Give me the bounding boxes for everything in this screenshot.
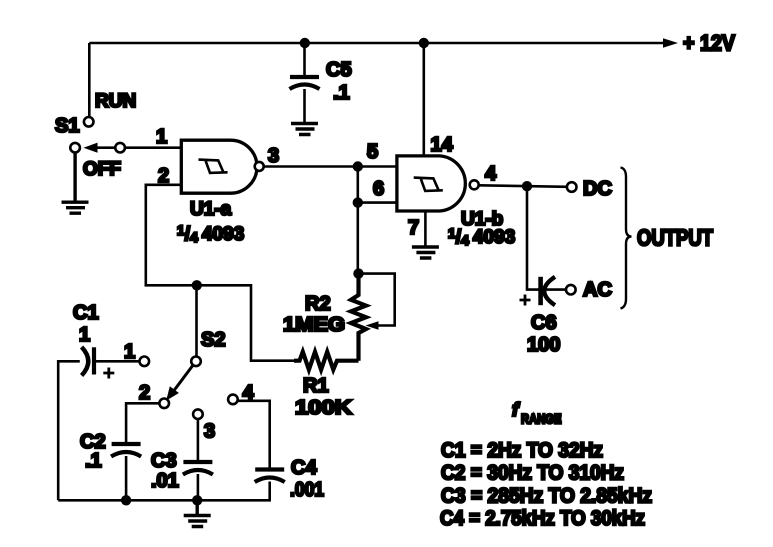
node S2 pole junction [192, 280, 202, 290]
node pin5 junction [353, 161, 363, 171]
wire pin 3 to pins 5/6 [264, 165, 397, 168]
capacitor C6 [538, 277, 543, 305]
resistor R1 body [294, 352, 359, 370]
capacitor C4 [255, 467, 284, 471]
node output junction [522, 181, 532, 191]
output brace [621, 168, 632, 309]
svg-text:C3 = 285Hz TO 2.85kHz: C3 = 285Hz TO 2.85kHz [441, 485, 652, 508]
node rail-C5 junction [300, 38, 310, 48]
switch S2 contact 4 [228, 395, 238, 405]
svg-text:3: 3 [204, 421, 215, 443]
wire pin 4 output [479, 185, 567, 187]
svg-text:1: 1 [156, 126, 167, 148]
svg-text:100: 100 [527, 334, 560, 356]
wire junction down to C6 [527, 186, 539, 289]
capacitor C5 [303, 43, 306, 75]
svg-text:.1: .1 [85, 450, 102, 472]
switch S2 contact 2 [159, 399, 169, 409]
svg-text:OFF: OFF [83, 159, 121, 180]
svg-text:RUN: RUN [95, 91, 136, 112]
svg-text:C4: C4 [291, 457, 317, 479]
switch S2 arm [171, 365, 193, 395]
wire contact 4 to C4 [237, 401, 269, 468]
svg-text:U1-a: U1-a [190, 199, 232, 220]
wire pins 5/6 vertical [356, 167, 359, 274]
wire contact 2 to C2 [126, 403, 160, 442]
wire pin 6 stub [358, 201, 397, 204]
U1-a schmitt trigger symbol [199, 160, 228, 173]
wire S2 pole [195, 285, 198, 356]
svg-text:2: 2 [139, 382, 150, 404]
node C2-rail junction [121, 495, 131, 505]
svg-text:C5: C5 [326, 59, 352, 81]
wire pin 2 feedback path to R1 [146, 185, 294, 361]
switch S2 pole contact [191, 357, 201, 367]
svg-text:1MEG: 1MEG [283, 314, 345, 336]
svg-text:1/44093: 1/44093 [448, 225, 515, 248]
switch S1 pole contact [70, 143, 80, 153]
svg-text:R1: R1 [303, 375, 329, 397]
R2 wiper arrowhead [366, 321, 379, 330]
svg-text:C3: C3 [151, 450, 177, 472]
svg-text:7: 7 [408, 217, 419, 239]
svg-text:6: 6 [373, 178, 384, 200]
NAND gate U1-a body [181, 140, 257, 193]
U1-a output bubble pin 3 [255, 162, 264, 171]
svg-text:1: 1 [79, 324, 90, 346]
svg-text:1: 1 [124, 341, 135, 363]
svg-text:RANGE: RANGE [521, 412, 562, 427]
switch S1 arm contact [115, 143, 125, 153]
svg-text:S2: S2 [201, 329, 225, 351]
ground U1-b pin 7 [412, 247, 439, 258]
terminal AC [566, 285, 576, 295]
capacitor C3 [183, 460, 212, 464]
svg-text:DC: DC [583, 178, 612, 200]
wire pin 7 [424, 211, 427, 247]
svg-text:2: 2 [158, 165, 169, 187]
svg-text:OUTPUT: OUTPUT [637, 225, 713, 251]
switch S1 arm wire with arrow [95, 146, 116, 149]
wire rail drop to S1 RUN contact [88, 43, 91, 117]
U1-b output bubble pin 4 [470, 180, 479, 189]
svg-text:S1: S1 [55, 115, 79, 137]
NAND gate U1-b body [397, 156, 465, 211]
svg-text:.1: .1 [333, 82, 350, 104]
wire C1 left to bottom rail [58, 361, 80, 500]
svg-text:+ 12V: + 12V [683, 31, 735, 56]
ground bottom rail [184, 500, 211, 526]
svg-text:C1: C1 [73, 302, 99, 324]
terminal DC [567, 182, 577, 192]
switch S1 RUN contact [84, 117, 94, 127]
node R2 top junction [353, 268, 363, 278]
svg-text:100K: 100K [295, 397, 353, 419]
node C3-rail junction [192, 495, 202, 505]
svg-text:AC: AC [583, 279, 612, 301]
svg-text:C6: C6 [531, 312, 557, 334]
svg-text:R2: R2 [305, 293, 331, 315]
node pin6 junction [353, 197, 363, 207]
wire bottom rail [58, 499, 271, 502]
capacitor C2 [112, 442, 141, 446]
node rail-pin14 junction [419, 38, 429, 48]
potentiometer R2 wiper loop [359, 274, 395, 326]
plus sign C6 [520, 295, 531, 306]
plus sign C1 [103, 368, 114, 379]
wire pin 14 [422, 43, 425, 156]
switch S2 contact 1 [140, 357, 150, 367]
svg-text:C4 = 2.75kHz TO 30kHz: C4 = 2.75kHz TO 30kHz [440, 507, 645, 530]
potentiometer R2 body [351, 274, 366, 361]
wire S1 to pin 1 [125, 146, 182, 149]
svg-text:.01: .01 [151, 470, 179, 492]
switch S2 contact 3 [193, 409, 203, 419]
svg-text:1/44093: 1/44093 [177, 222, 244, 245]
svg-text:3: 3 [268, 145, 279, 167]
U1-b schmitt trigger symbol [414, 178, 443, 191]
svg-text:.001: .001 [290, 479, 324, 501]
svg-text:4: 4 [485, 163, 497, 185]
svg-text:5: 5 [367, 141, 378, 163]
svg-text:C2 = 30Hz TO 310Hz: C2 = 30Hz TO 310Hz [441, 462, 624, 485]
capacitor C1 [82, 347, 89, 376]
svg-text:C1 = 2Hz TO 32Hz: C1 = 2Hz TO 32Hz [441, 439, 603, 462]
ground C5 [291, 124, 318, 135]
svg-text:14: 14 [431, 134, 454, 156]
ground S1 [62, 152, 89, 213]
wire +12V supply rail [89, 42, 664, 45]
arrow +12V [663, 38, 678, 48]
wire contact 3 to C3 [197, 419, 200, 460]
S2 arm arrowhead [166, 386, 179, 400]
